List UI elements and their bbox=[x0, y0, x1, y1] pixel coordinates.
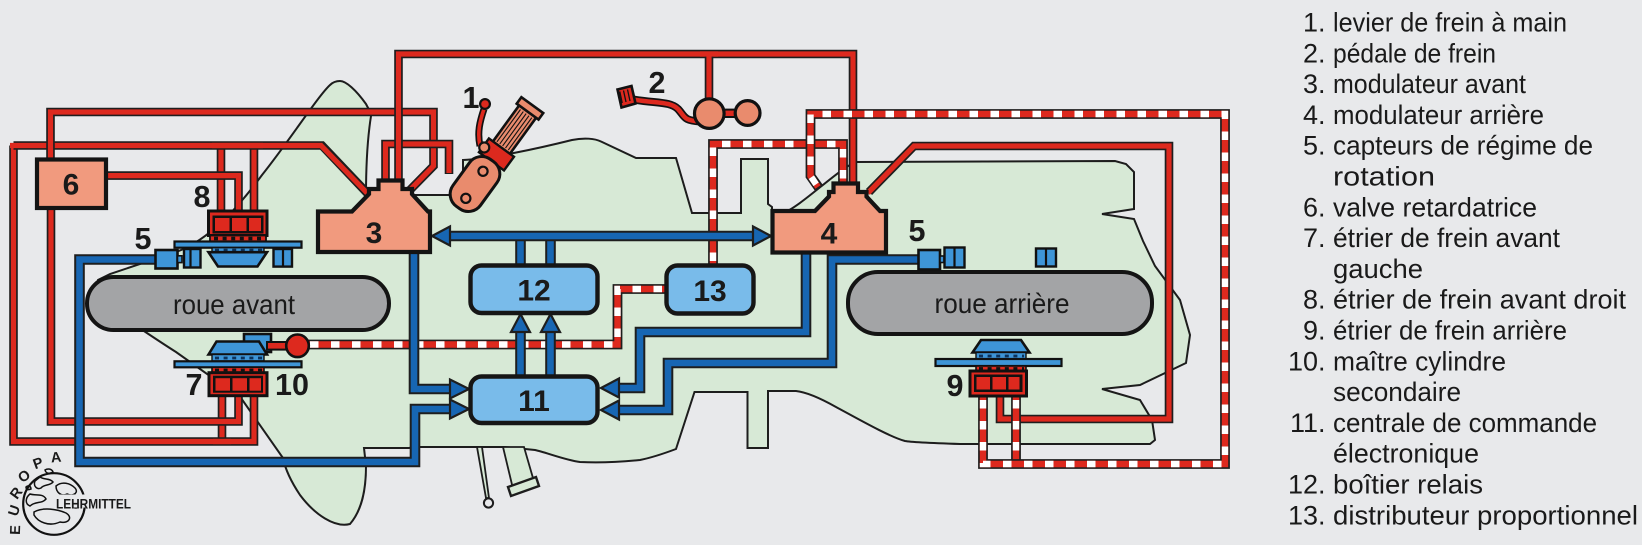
pedal master cylinder small circle bbox=[735, 101, 760, 126]
wire: front circuit line2 far-left riser + hB + caliper7 port3 bbox=[14, 146, 255, 442]
caliper 7 red strip bbox=[212, 367, 264, 372]
svg-text:valve retardatrice: valve retardatrice bbox=[1333, 192, 1537, 222]
caliper 9 housing bbox=[970, 371, 1027, 396]
svg-text:4.: 4. bbox=[1303, 100, 1326, 130]
modulateur avant 3 bbox=[318, 181, 430, 253]
caliper 8 body bbox=[209, 252, 268, 266]
svg-text:capteurs de régime de: capteurs de régime de bbox=[1333, 131, 1593, 161]
caliper 9 brake disc bbox=[936, 359, 1062, 366]
svg-text:1: 1 bbox=[463, 81, 480, 115]
Europa Lehrmittel logo circle bbox=[23, 473, 85, 535]
blue wire: modulator4 bottom to ECU11 upper right arrow bbox=[618, 251, 806, 388]
blue arrowhead into ECU11 lower right bbox=[601, 401, 619, 420]
svg-text:modulateur avant: modulateur avant bbox=[1333, 69, 1526, 99]
svg-text:roue avant: roue avant bbox=[173, 289, 295, 320]
svg-text:3: 3 bbox=[366, 217, 383, 250]
svg-text:modulateur arrière: modulateur arrière bbox=[1333, 100, 1544, 130]
svg-text:9.: 9. bbox=[1303, 316, 1326, 346]
wire: hand lever line to modulator3 top bbox=[386, 144, 450, 183]
hand brake lever assembly 1 bbox=[443, 94, 546, 218]
svg-text:9: 9 bbox=[947, 369, 964, 403]
pedal master cylinder big circle bbox=[695, 99, 725, 129]
blue wire: modulator3 bottom to ECU11 upper left arrow bbox=[414, 252, 452, 389]
valve retardatrice box 6 bbox=[37, 160, 106, 209]
svg-text:2: 2 bbox=[649, 66, 666, 100]
logo europe map bbox=[26, 469, 79, 524]
pedal master cylinder link bbox=[722, 110, 737, 117]
legend bbox=[1288, 8, 1638, 531]
master cylinder 10 red circle bbox=[286, 335, 309, 358]
svg-text:5: 5 bbox=[909, 214, 926, 248]
svg-text:6.: 6. bbox=[1303, 192, 1326, 222]
hand brake lever ball bbox=[480, 99, 490, 109]
rear sensor 5 body bbox=[919, 250, 941, 270]
svg-text:gauche: gauche bbox=[1333, 254, 1423, 284]
svg-text:maître cylindre: maître cylindre bbox=[1333, 346, 1506, 376]
wire: caliper7 port1 stub to hB bbox=[218, 394, 227, 442]
dashed wire: distributor13 top to y144 to modulator4 top right bbox=[713, 144, 843, 267]
svg-text:centrale de commande: centrale de commande bbox=[1333, 408, 1597, 438]
rear pulser blocks right bbox=[1036, 249, 1056, 267]
master cylinder 10 body bbox=[244, 334, 271, 352]
blue wire: front wheel sensor to ECU11 lower left arrow bbox=[80, 260, 453, 463]
wire: top line from modulator3 top to pedal and modulator4 top bbox=[399, 54, 854, 185]
front pulser blocks right bbox=[274, 249, 293, 267]
kickstand bbox=[503, 447, 535, 493]
kickstand strut thin bbox=[477, 447, 489, 498]
wire: box6 bottom loop to caliper7 port2 bbox=[51, 206, 239, 422]
svg-text:boîtier relais: boîtier relais bbox=[1333, 470, 1483, 500]
blue arrowhead into modulator4 bbox=[753, 227, 771, 246]
wire: caliper8 port3 stub from line2 bbox=[250, 146, 259, 213]
blue wire: ECU11 up arrow left to relay12 bbox=[515, 331, 526, 375]
svg-text:10.: 10. bbox=[1288, 346, 1326, 376]
blue wire: ECU11 up arrow right to relay12 bbox=[545, 331, 556, 375]
blue wire: link line between modulator3 and modulator4 bbox=[449, 231, 754, 242]
boitier relais 12 bbox=[471, 266, 598, 314]
dashed wire: caliper9 port1 big loop to modulator4 top left bbox=[811, 114, 1226, 464]
dashed wire: caliper9 port3 stub bbox=[1011, 394, 1021, 464]
svg-text:7.: 7. bbox=[1303, 223, 1326, 253]
blue arrowhead into ECU11 upper left bbox=[450, 380, 469, 399]
svg-text:étrier de frein arrière: étrier de frein arrière bbox=[1333, 316, 1567, 346]
svg-text:A: A bbox=[50, 450, 62, 467]
rear pulser blocks left bbox=[945, 248, 965, 268]
svg-text:LEHRMITTEL: LEHRMITTEL bbox=[56, 497, 131, 512]
caliper 8 blue strip bbox=[212, 248, 264, 253]
svg-text:roue arrière: roue arrière bbox=[935, 288, 1070, 319]
kickstand foot plate bbox=[508, 477, 539, 496]
blue arrowhead into modulator3 bbox=[432, 227, 450, 246]
caliper 7 roof bbox=[209, 342, 268, 355]
svg-text:pédale de frein: pédale de frein bbox=[1333, 38, 1496, 68]
blue arrowhead into ECU11 lower left bbox=[450, 400, 469, 419]
svg-text:11.: 11. bbox=[1290, 408, 1326, 438]
wire: line2 horizontal + diagonal into modulator3 left bbox=[14, 146, 370, 196]
wire: pedal drop stub bbox=[705, 54, 714, 100]
svg-text:levier de frein à main: levier de frein à main bbox=[1333, 8, 1567, 38]
svg-text:13: 13 bbox=[693, 275, 726, 308]
svg-text:étrier de frein avant: étrier de frein avant bbox=[1333, 223, 1560, 253]
caliper 7 blue strip bbox=[212, 355, 264, 362]
caliper 7 housing bbox=[209, 373, 267, 396]
caliper 8 housing bbox=[209, 211, 268, 236]
wire: box6 top riser, y112 line, down to modulator3 right diagonal bbox=[51, 112, 434, 191]
wire: modulator4 right diagonal to y144 line to caliper9 middle port bbox=[869, 146, 1169, 419]
svg-text:10: 10 bbox=[275, 368, 309, 402]
blue wire: relay12 drops from modulator link line bbox=[515, 236, 526, 267]
svg-text:8: 8 bbox=[194, 180, 211, 214]
distributeur proportionnel 13 bbox=[667, 266, 754, 314]
front sensor 5 body bbox=[156, 250, 178, 269]
svg-text:distributeur proportionnel: distributeur proportionnel bbox=[1333, 500, 1638, 530]
front pulser blocks left bbox=[184, 249, 201, 268]
svg-text:12: 12 bbox=[517, 275, 550, 308]
master cylinder 10 link bbox=[267, 342, 287, 350]
svg-text:6: 6 bbox=[63, 169, 80, 202]
svg-text:électronique: électronique bbox=[1333, 439, 1479, 469]
caliper 8 pad strip bbox=[210, 236, 266, 242]
svg-text:5.: 5. bbox=[1303, 131, 1326, 161]
svg-text:13.: 13. bbox=[1288, 500, 1326, 530]
roue arriere wheel bbox=[848, 272, 1152, 334]
svg-text:1.: 1. bbox=[1303, 8, 1326, 38]
junction patch bbox=[212, 143, 263, 148]
kickstand strut foot circle bbox=[484, 498, 493, 507]
svg-text:11: 11 bbox=[518, 385, 550, 418]
svg-text:E: E bbox=[8, 525, 24, 536]
svg-text:étrier de frein avant droit: étrier de frein avant droit bbox=[1333, 285, 1626, 315]
wire: caliper8 port1 stub from line2 bbox=[217, 146, 226, 213]
svg-text:rotation: rotation bbox=[1333, 162, 1435, 192]
svg-text:secondaire: secondaire bbox=[1333, 377, 1461, 407]
hand brake lever arm bbox=[479, 109, 484, 146]
blue wire: rear wheel sensor to ECU11 lower right arrow bbox=[618, 260, 920, 411]
brake pedal pad bbox=[618, 86, 636, 108]
logo LEHRMITTEL plate bbox=[52, 495, 134, 508]
caliper 9 red strip bbox=[976, 366, 1026, 371]
svg-text:12.: 12. bbox=[1288, 470, 1326, 500]
svg-text:7: 7 bbox=[186, 368, 203, 402]
centrale de commande electronique 11 bbox=[471, 377, 598, 424]
brake pedal arm 2 bbox=[633, 100, 700, 122]
svg-text:5: 5 bbox=[135, 222, 152, 256]
caliper 8 brake disc bbox=[175, 242, 302, 248]
motorcycle silhouette bbox=[97, 81, 1190, 525]
svg-text:3.: 3. bbox=[1303, 69, 1326, 99]
modulateur arriere 4 bbox=[773, 184, 887, 253]
blue arrowhead into ECU11 upper right bbox=[601, 379, 619, 398]
caliper 9 roof bbox=[973, 340, 1030, 353]
caliper 9 blue strip bbox=[976, 353, 1026, 360]
caliper 7 brake disc bbox=[175, 361, 302, 367]
wire: box6 right line to caliper8 port2 bbox=[106, 176, 239, 212]
svg-text:2.: 2. bbox=[1303, 38, 1326, 68]
roue avant wheel bbox=[87, 277, 389, 330]
svg-text:4: 4 bbox=[821, 218, 838, 251]
svg-text:8.: 8. bbox=[1303, 285, 1326, 315]
dashed wire: master cylinder10 to distributor13 bbox=[306, 289, 668, 345]
